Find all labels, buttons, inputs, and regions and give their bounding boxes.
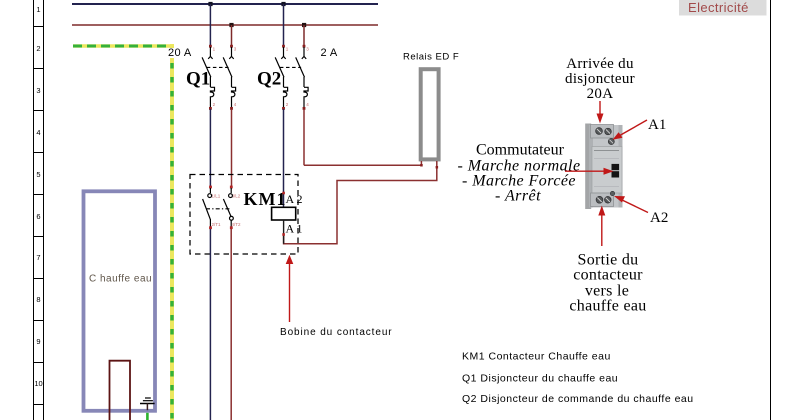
coil terminal dot A2: [282, 192, 285, 195]
coil terminal dot A1: [282, 233, 285, 236]
device switch window: [612, 164, 620, 170]
node L phase bus (navy): [72, 3, 378, 5]
wire Q2 pole2 to relay left terminal: [304, 161, 421, 165]
svg-text:disjoncteur: disjoncteur: [565, 71, 635, 87]
svg-text:Q2 Disjoncteur de commande du: Q2 Disjoncteur de commande du chauffe ea…: [462, 393, 694, 405]
panel separator line right: [770, 0, 772, 420]
device top terminal block: [591, 125, 614, 139]
contact pole2 terminal dot: [230, 186, 233, 189]
svg-text:5: 5: [36, 170, 40, 179]
svg-text:4: 4: [234, 102, 237, 107]
pin 2 terminal dot: [282, 107, 285, 110]
wire Q1 pole1 to KM1 (navy): [209, 109, 211, 187]
svg-text:1: 1: [286, 47, 289, 52]
device body step: [592, 147, 622, 194]
svg-text:Q1 Disjoncteur du chauffe eau: Q1 Disjoncteur du chauffe eau: [462, 373, 618, 385]
svg-text:4: 4: [306, 102, 309, 107]
Q2 pole2 contact: [296, 47, 308, 107]
wire Q2 pole2 down (dark red): [303, 109, 305, 165]
svg-text:2: 2: [213, 102, 216, 107]
svg-text:A 1: A 1: [286, 222, 303, 236]
pin 4 terminal dot: [303, 107, 306, 110]
device bottom screws: [596, 196, 603, 203]
annotation arrow sortie: [598, 206, 605, 247]
svg-text:KM1: KM1: [244, 189, 287, 209]
Q1 pole1 contact: [202, 47, 214, 107]
svg-text:4/T2: 4/T2: [232, 222, 242, 227]
svg-text:Relais ED F: Relais ED F: [403, 52, 459, 63]
photo contactor device: [585, 124, 622, 210]
pin 4 terminal dot: [230, 107, 233, 110]
title tab Electricité: [679, 0, 767, 16]
wire Q1 pole2 to KM1 (dark red): [231, 109, 233, 187]
contactor KM1 power contacts: [203, 186, 241, 230]
pin 3 terminal dot: [230, 45, 233, 48]
annotation Arrivée du disjoncteur 20A: [565, 56, 635, 102]
DIN rail flange: [585, 124, 591, 210]
device bottom terminal block: [591, 193, 614, 207]
Q1 mechanical link: [207, 66, 229, 68]
device label lines: [594, 150, 619, 152]
svg-text:C hauffe eau: C hauffe eau: [89, 274, 152, 285]
load box Chauffe eau: [84, 191, 156, 410]
wire Q2 pole1 to coil A2 (navy): [283, 109, 285, 207]
junction neutral-Q1: [229, 23, 233, 27]
svg-text:chauffe eau: chauffe eau: [569, 298, 646, 315]
wire KM1 pole1 to bottom (navy): [209, 229, 211, 420]
contact pole1 bottom terminal dot: [209, 226, 212, 229]
svg-text:3: 3: [306, 47, 309, 52]
svg-text:2 A: 2 A: [321, 47, 338, 59]
svg-text:1/L1: 1/L1: [212, 194, 221, 199]
annotation arrow arrivee: [597, 101, 604, 124]
svg-text:Electricité: Electricité: [688, 0, 749, 15]
svg-text:- Arrêt: - Arrêt: [495, 188, 541, 205]
breaker Q2: [275, 45, 309, 110]
device A1 screw: [608, 139, 614, 145]
contact pole2 bottom terminal dot: [230, 226, 233, 229]
annotation Commutateur: [457, 142, 580, 205]
wire KM1 pole2 to bottom (dark red): [230, 229, 232, 420]
svg-text:20A: 20A: [587, 86, 614, 102]
svg-text:2: 2: [286, 102, 289, 107]
coil rectangle: [272, 207, 296, 220]
contactor coil KM1: [272, 192, 303, 244]
svg-text:2/T1: 2/T1: [212, 222, 222, 227]
device top screws: [596, 128, 603, 135]
annotation arrow A1: [613, 120, 648, 140]
wire relay right terminal to coil A1: [284, 161, 437, 244]
svg-text:6: 6: [36, 212, 40, 221]
pin 1 terminal dot: [282, 45, 285, 48]
junction neutral-Q2: [302, 23, 306, 27]
svg-text:4: 4: [36, 128, 40, 137]
pin 3 terminal dot: [303, 45, 306, 48]
Q2 mechanical link: [280, 66, 301, 68]
svg-text:Q1: Q1: [186, 69, 210, 90]
annotation arrow commutateur: [565, 168, 614, 175]
value 20 A: [165, 48, 191, 58]
svg-text:1: 1: [213, 47, 216, 52]
junction relay left stub: [420, 164, 423, 167]
KM1 contacts mechanical link: [206, 208, 230, 210]
coil stub A1: [283, 220, 285, 244]
pin 1 terminal dot: [209, 45, 212, 48]
annotation Sortie du contacteur vers le chauffe eau: [569, 252, 646, 315]
svg-text:10: 10: [34, 379, 42, 388]
wire earth green to bottom: [146, 413, 149, 420]
svg-text:A2: A2: [650, 210, 668, 226]
svg-text:A1: A1: [648, 117, 666, 133]
pin 2 terminal dot: [209, 107, 212, 110]
KM1 pole1 contact blade: [203, 188, 212, 227]
svg-text:1: 1: [36, 5, 40, 14]
wire Q2 pole2 top (neutral to Q2): [303, 25, 305, 47]
svg-text:contacteur: contacteur: [573, 267, 643, 284]
annotation arrow bobine: [286, 255, 294, 322]
heating element: [110, 361, 131, 420]
ground symbol: [140, 398, 155, 410]
device main body: [589, 125, 623, 208]
svg-text:Q2: Q2: [257, 69, 281, 90]
annotation arrow A2: [614, 196, 648, 213]
device A2 screw: [610, 191, 614, 195]
contactor KM1 dashed enclosure: [190, 175, 298, 255]
svg-text:2: 2: [36, 44, 40, 53]
svg-text:3: 3: [234, 47, 237, 52]
Q2 pole1 contact: [275, 47, 287, 107]
svg-text:A 2: A 2: [286, 192, 303, 206]
svg-text:Commutateur: Commutateur: [476, 142, 565, 159]
svg-text:KM1 Contacteur Chauffe eau: KM1 Contacteur Chauffe eau: [462, 351, 611, 363]
KM1 pole2 contact blade: [223, 188, 233, 227]
wire Q1 pole2 top (neutral to Q1): [231, 25, 233, 47]
breaker Q1: [202, 45, 237, 110]
svg-text:3: 3: [36, 86, 40, 95]
junction relay right stub: [436, 166, 439, 169]
node N neutral bus (dark red): [72, 24, 378, 26]
border ruler column: [33, 0, 44, 420]
svg-text:7: 7: [36, 253, 40, 262]
relay box Relais EDF: [421, 69, 439, 159]
svg-text:20 A: 20 A: [168, 47, 192, 59]
wire Q1 pole1 top (phase to Q1): [209, 4, 211, 47]
Q1 pole2 contact: [223, 47, 235, 107]
svg-text:Arrivée du: Arrivée du: [566, 56, 634, 72]
svg-text:9: 9: [36, 337, 40, 346]
svg-text:8: 8: [36, 295, 40, 304]
junction phase-Q1: [208, 2, 212, 6]
earth PE wire vertical (green/yellow dashed): [170, 44, 174, 420]
wire Q2 pole1 top (phase to Q2): [283, 4, 285, 47]
earth PE wire horizontal (green/yellow dashed): [73, 44, 174, 48]
junction phase-Q2: [281, 2, 285, 6]
svg-text:Bobine du contacteur: Bobine du contacteur: [280, 327, 393, 338]
contact pole1 terminal dot: [209, 186, 212, 189]
